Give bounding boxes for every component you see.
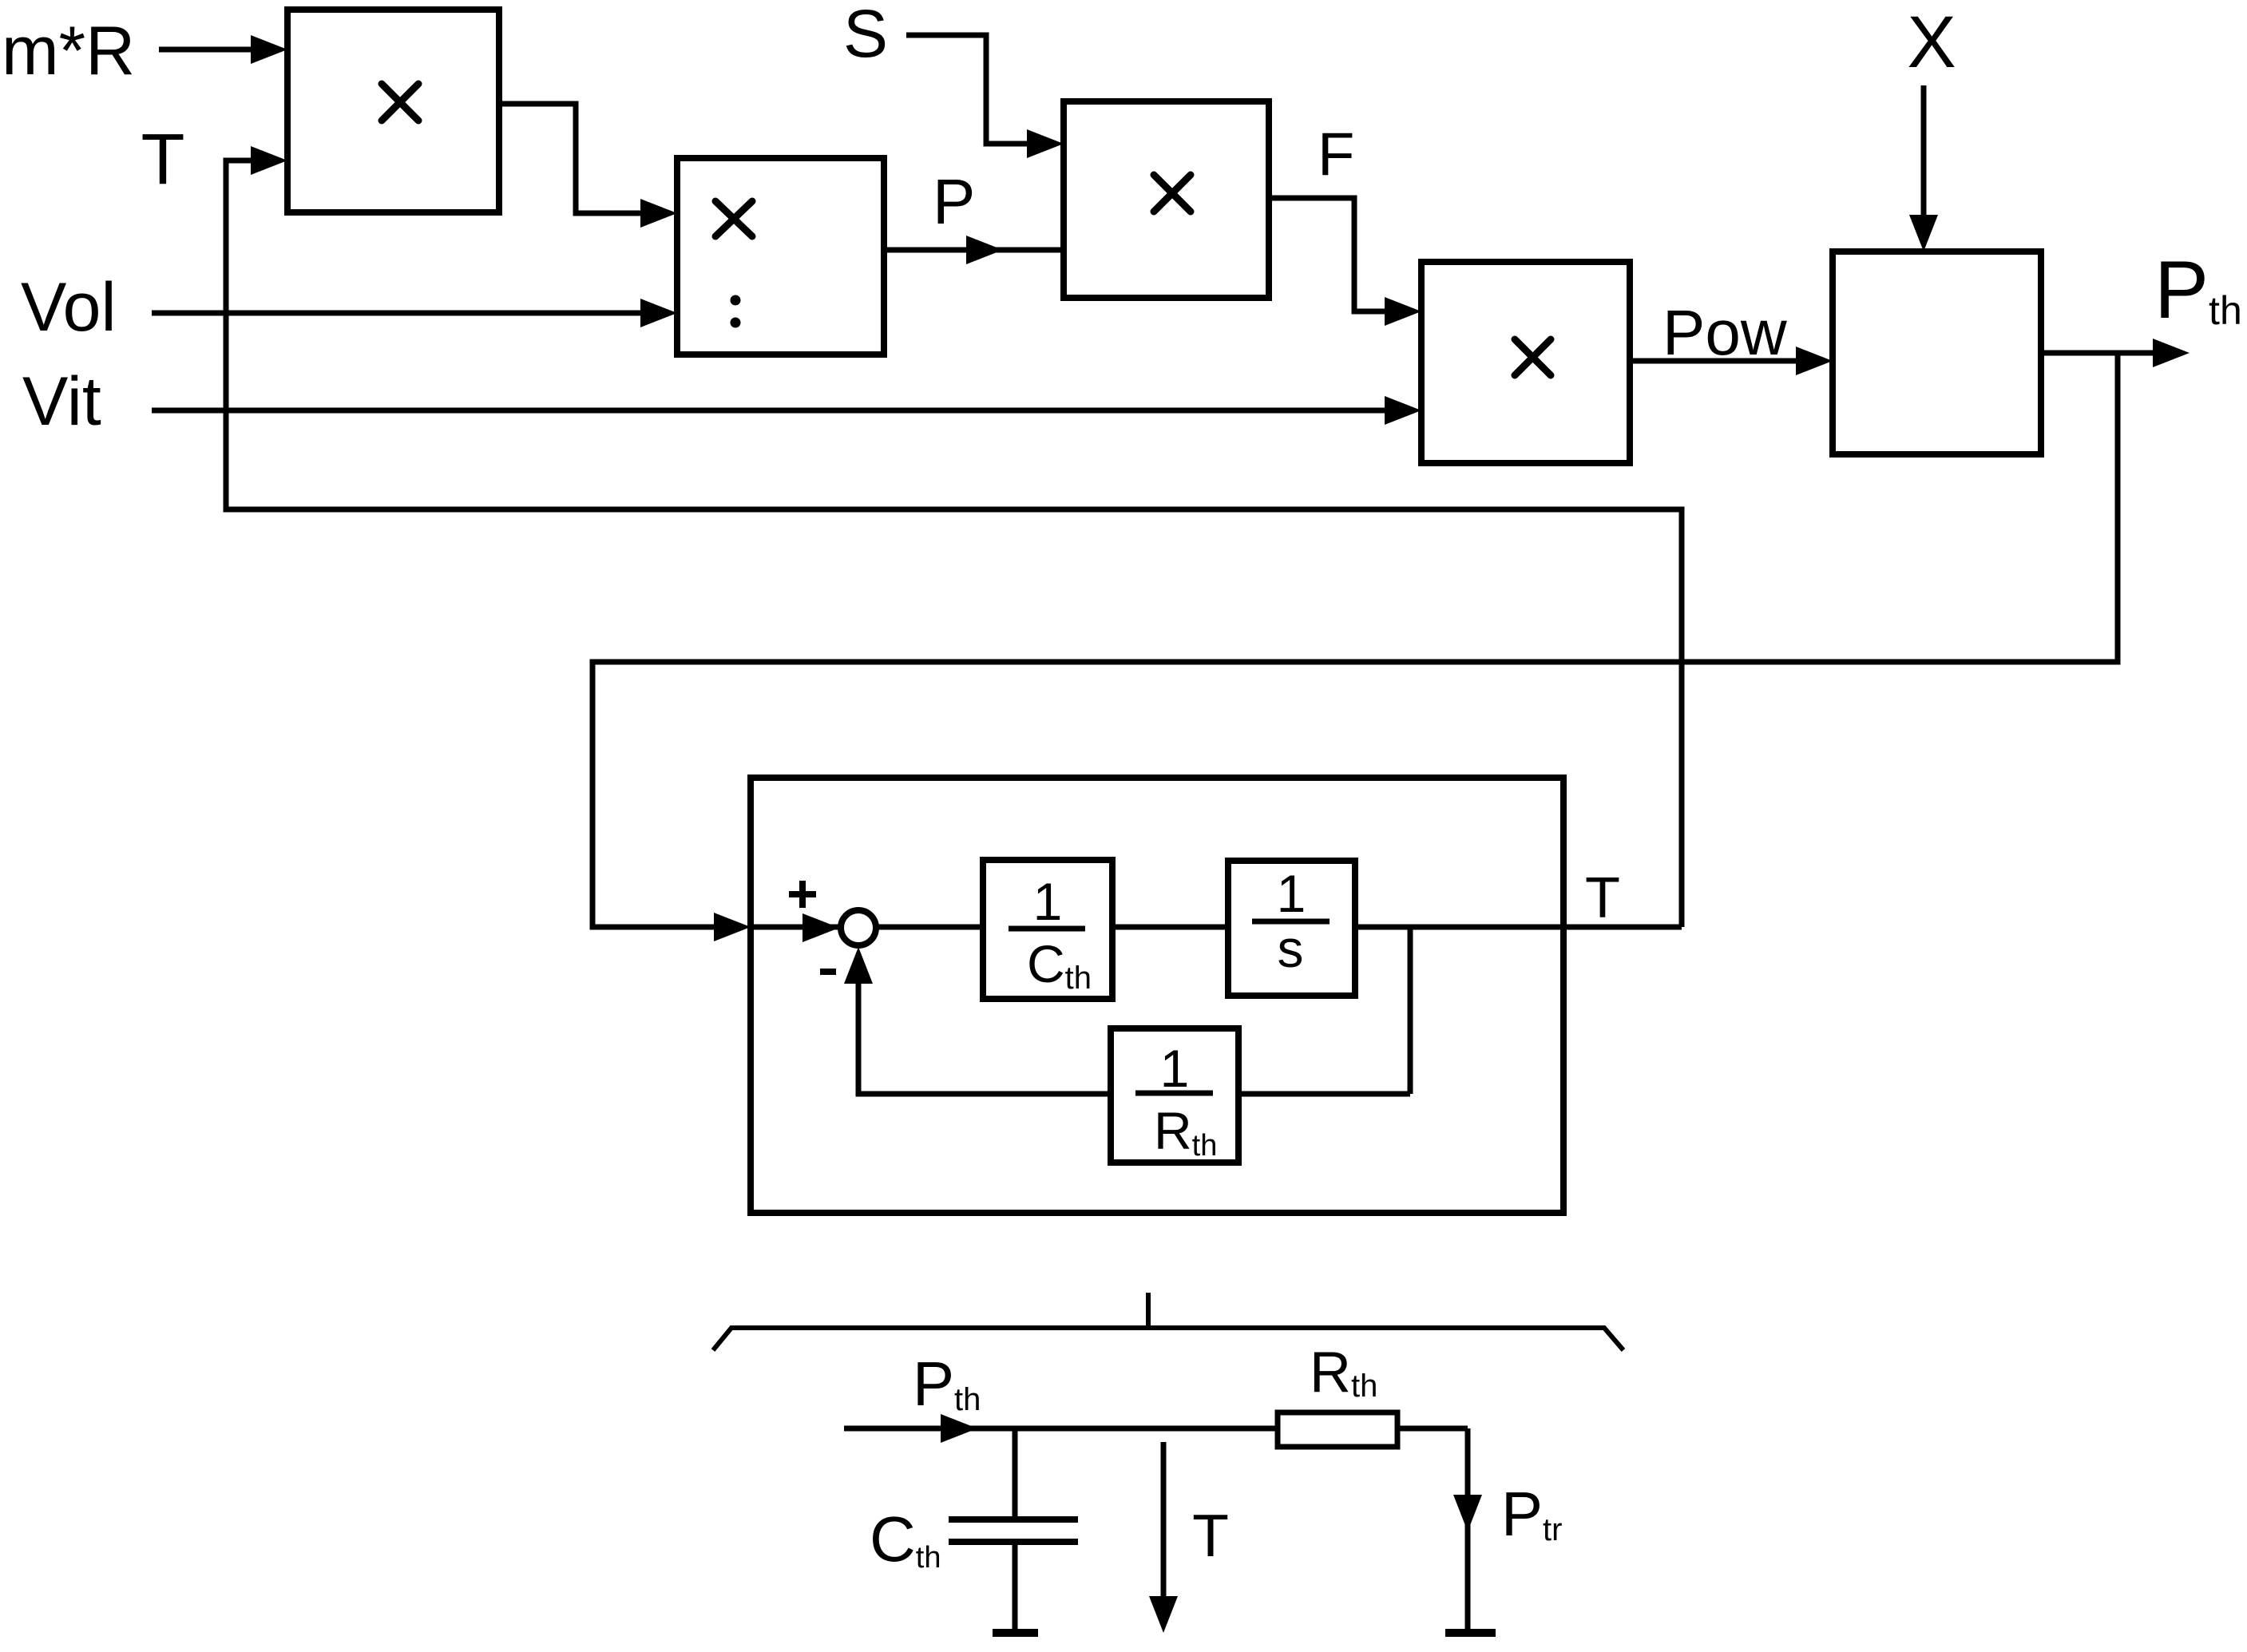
wire resistor to Ptr branch	[1397, 1426, 1468, 1432]
summing junction circle	[841, 910, 876, 945]
wire F: U3 output to multiplier U4	[1269, 198, 1421, 326]
node label F	[1318, 121, 1354, 188]
plus sign at summing junction	[789, 881, 816, 908]
output label Pth	[2154, 244, 2242, 335]
x symbol U2	[715, 201, 752, 236]
gain block 1/Rth	[1111, 1028, 1238, 1163]
x symbol U4	[1515, 339, 1551, 375]
svg-text:s: s	[1278, 919, 1304, 978]
wire Vit input arrow into multiplier U4	[152, 396, 1421, 425]
resistor Rth	[1278, 1412, 1397, 1447]
svg-text:Pow: Pow	[1662, 297, 1787, 368]
divide dots symbol U2	[731, 295, 741, 328]
wire m*R input arrow	[159, 35, 287, 64]
ground (Ptr branch)	[1445, 1629, 1496, 1637]
wire Ptr branch down	[1453, 1428, 1482, 1633]
block U5	[1833, 252, 2041, 454]
wire Vol input arrow into divider U2	[152, 299, 677, 327]
multiplier block U3	[1064, 101, 1269, 298]
svg-text:X: X	[1907, 2, 1956, 83]
svg-text:m*R: m*R	[2, 13, 135, 89]
input label Vit	[22, 363, 101, 440]
node label P	[933, 166, 975, 237]
svg-text:T: T	[1585, 866, 1620, 930]
wire Pth branch down to summing junction	[592, 353, 2118, 942]
wire X input arrow into block U5	[1909, 85, 1938, 252]
integrator block 1/s	[1228, 861, 1355, 996]
node label T (loop output)	[1585, 866, 1620, 930]
node label T (circuit)	[1192, 1502, 1229, 1569]
svg-text:Vit: Vit	[22, 363, 101, 440]
wire U1 output to divider U2	[499, 104, 677, 228]
input label m*R	[2, 13, 135, 89]
input label Vol	[21, 269, 117, 346]
capacitor Cth plates	[949, 1519, 1078, 1542]
multiplier block U4	[1421, 262, 1630, 463]
wire branch down from integrator output	[1408, 927, 1413, 1094]
node T voltage arrow	[1149, 1442, 1178, 1633]
svg-text:Vol: Vol	[21, 269, 117, 346]
subsystem outer box	[751, 778, 1563, 1213]
x symbol U3	[1154, 175, 1191, 212]
svg-text:1: 1	[1033, 872, 1063, 931]
minus sign at summing junction	[820, 969, 836, 975]
svg-text:1: 1	[1160, 1039, 1190, 1098]
wire Pth current arrow into node	[844, 1414, 1278, 1443]
wire Pow: U4 output to block U5	[1630, 347, 1833, 375]
svg-text:F: F	[1318, 121, 1354, 188]
wire summing junction to 1/Cth and 1/s and T output	[876, 925, 1682, 930]
gain block 1/Cth	[983, 860, 1112, 999]
wire inner feedback through 1/Rth to summing junction	[844, 947, 1410, 1094]
node label T (top input)	[141, 120, 185, 200]
divider block U2	[677, 158, 884, 355]
wire P: U2 output to multiplier U3	[884, 236, 1064, 264]
wire S input arrow into multiplier U3	[906, 35, 1064, 158]
capacitor Cth bottom lead	[1013, 1542, 1018, 1633]
wire T feedback net: from T output up-left into multiplier U1	[226, 146, 1682, 927]
svg-text:S: S	[843, 0, 888, 71]
node label Pow	[1662, 297, 1787, 368]
x symbol U1	[382, 84, 418, 121]
value label Rth	[1310, 1341, 1377, 1404]
input label S	[843, 0, 888, 71]
input label X	[1907, 2, 1956, 83]
wire Pth output arrow	[2041, 339, 2190, 367]
node label Ptr	[1501, 1479, 1562, 1549]
ground (capacitor)	[993, 1629, 1038, 1637]
svg-text:T: T	[141, 120, 185, 200]
svg-text:1: 1	[1277, 864, 1306, 923]
multiplier block U1	[287, 10, 499, 212]
svg-text:P: P	[933, 166, 975, 237]
value label Cth	[870, 1503, 941, 1575]
capacitor Cth top lead	[1013, 1428, 1018, 1519]
node label Pth (circuit input)	[913, 1349, 981, 1419]
brace over equivalent circuit	[713, 1293, 1623, 1350]
svg-text:T: T	[1192, 1502, 1229, 1569]
